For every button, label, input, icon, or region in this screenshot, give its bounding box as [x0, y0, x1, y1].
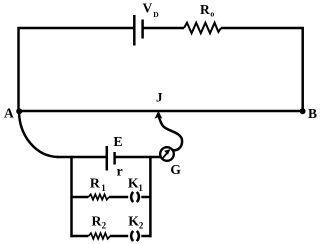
- svg-text:2: 2: [102, 221, 107, 231]
- battery V_D short plate: [141, 20, 144, 39]
- svg-text:o: o: [210, 9, 214, 18]
- key K1 right contact: [137, 192, 139, 202]
- wire curve from A down to cell branch: [19, 112, 58, 157]
- jockey arrowhead at J: [155, 111, 163, 119]
- branch 2 wire middle: [110, 235, 128, 238]
- svg-text:1: 1: [138, 183, 143, 193]
- svg-text:R: R: [200, 2, 210, 17]
- wire jockey S-curve from G to J arrow: [159, 117, 182, 151]
- svg-text:E: E: [113, 135, 122, 150]
- svg-text:V: V: [143, 1, 153, 16]
- wire top-left segment: [19, 28, 135, 111]
- node A junction dot: [16, 108, 22, 114]
- svg-text:2: 2: [139, 221, 144, 231]
- wire cell to galvanometer: [115, 156, 160, 159]
- resistor R2 zigzag: [89, 233, 111, 239]
- branch 2 wire left: [70, 235, 88, 238]
- svg-text:J: J: [156, 90, 163, 105]
- battery V_D long plate: [133, 15, 136, 46]
- branch 2 wire right: [141, 235, 151, 238]
- svg-text:K: K: [128, 214, 139, 229]
- svg-text:D: D: [153, 10, 159, 19]
- right rail of parallel branches: [149, 156, 152, 237]
- galvanometer needle: [163, 152, 168, 158]
- wire A to B (potentiometer wire): [19, 110, 304, 113]
- key K1 left contact: [131, 192, 133, 202]
- svg-text:G: G: [170, 162, 181, 177]
- svg-text:r: r: [117, 165, 123, 180]
- branch 1 wire right: [141, 196, 151, 199]
- cell E long plate: [106, 146, 109, 171]
- svg-text:A: A: [4, 106, 14, 121]
- wire resistor to top-right corner down to B: [221, 28, 303, 111]
- svg-text:B: B: [308, 106, 317, 121]
- branch 1 wire left: [70, 196, 88, 199]
- svg-text:K: K: [128, 176, 139, 191]
- key K2 left contact: [131, 231, 133, 241]
- svg-text:R: R: [90, 176, 101, 191]
- wire battery to resistor: [143, 27, 184, 30]
- galvanometer G circle: [160, 147, 174, 161]
- cell E short plate: [113, 152, 116, 165]
- key K2 right contact: [137, 231, 139, 241]
- galvanometer needle arrowhead: [164, 149, 170, 155]
- left rail of parallel branches: [70, 156, 73, 237]
- resistor R1 zigzag: [89, 194, 110, 199]
- resistor R0 zigzag: [184, 23, 221, 34]
- svg-text:1: 1: [101, 183, 106, 193]
- branch 1 wire middle: [109, 196, 128, 199]
- node B junction dot: [300, 108, 306, 114]
- wire curve end to cell: [57, 156, 107, 159]
